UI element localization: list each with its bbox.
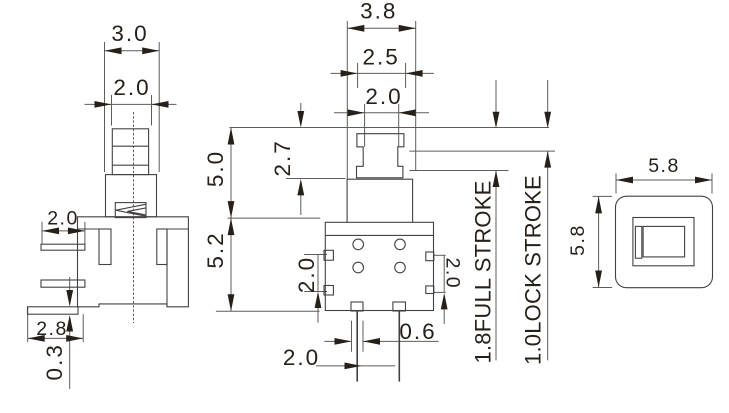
side dim left line bbox=[317, 255, 319, 292]
side dim left ext lower bbox=[304, 291, 327, 293]
dim 2.8 line bbox=[28, 337, 83, 339]
stroke dim lock tail top bbox=[547, 80, 549, 112]
dim 5.8 top arrow right bbox=[695, 177, 712, 184]
dim 0.3 line lower tail bbox=[69, 332, 71, 390]
shaft outline bbox=[112, 129, 148, 175]
svg-text:2.7: 2.7 bbox=[270, 139, 295, 176]
svg-text:5.8: 5.8 bbox=[567, 224, 589, 256]
body outline bbox=[78, 217, 189, 307]
side dim right ext lower bbox=[434, 291, 446, 293]
svg-text:0.6: 0.6 bbox=[399, 319, 436, 344]
svg-text:2.0: 2.0 bbox=[113, 75, 150, 100]
dim 3.8 ext right bbox=[415, 21, 417, 171]
spring box bbox=[115, 203, 146, 218]
side dim right ext upper bbox=[434, 254, 446, 256]
dim 2.0 line bbox=[85, 103, 177, 105]
dim 0.3 arrow up bbox=[66, 315, 73, 332]
dim 2.0 terminal line bbox=[42, 230, 85, 232]
dim 2.7 arrow up bbox=[297, 179, 304, 196]
dim 2.7 arrow down bbox=[297, 111, 304, 128]
full stroke line bbox=[409, 170, 508, 172]
dim 2.0 tick right bbox=[398, 104, 400, 147]
dim 2.5 line bbox=[331, 72, 434, 74]
terminal upper bbox=[41, 244, 85, 250]
bottom tab left bbox=[351, 302, 363, 311]
housing block bbox=[347, 179, 413, 222]
dim 5.8 top ext right bbox=[711, 174, 713, 194]
dim 0.3 arrow down bbox=[66, 290, 73, 307]
dim 3.0 extension line right bbox=[158, 42, 160, 172]
dim 0.6 tick right bbox=[362, 321, 364, 352]
ext line 5.2 bottom bbox=[216, 310, 320, 312]
lead left bbox=[356, 311, 358, 382]
svg-text:1.8FULL STROKE: 1.8FULL STROKE bbox=[471, 181, 496, 364]
dim 2.8 arrow right bbox=[66, 335, 83, 342]
base bar bbox=[28, 307, 79, 314]
svg-text:0.3: 0.3 bbox=[42, 343, 67, 380]
dim 3.0 arrow left bbox=[105, 47, 122, 54]
body right slot bbox=[157, 229, 167, 265]
dim 5.0 arrow up bbox=[228, 128, 235, 145]
top view mid rect bbox=[633, 218, 694, 266]
dim 5.8 left arrow up bbox=[595, 196, 602, 213]
dim 5.2 arrow up bbox=[228, 218, 235, 235]
dim 2.0 terminal arrow right bbox=[68, 228, 85, 235]
ext line 5.0/5.2 shared bbox=[228, 217, 321, 219]
side dim right tail bbox=[443, 309, 445, 324]
dim 2.0 terminal ext right bbox=[84, 222, 86, 244]
dim 2.0 terminal ext left bbox=[41, 222, 43, 244]
svg-text:2.0: 2.0 bbox=[294, 256, 319, 293]
centerline bbox=[133, 112, 135, 323]
svg-text:5.8: 5.8 bbox=[648, 155, 680, 177]
dim 2.7 line bbox=[300, 103, 302, 112]
shaft line 2 bbox=[112, 164, 148, 166]
dim 3.8 ext left bbox=[346, 21, 348, 180]
svg-text:2.5: 2.5 bbox=[363, 45, 400, 70]
svg-text:5.2: 5.2 bbox=[203, 231, 228, 268]
dim 2.7 ext line bbox=[286, 178, 345, 180]
dim 2.8 arrow left bbox=[28, 335, 45, 342]
svg-text:2.0: 2.0 bbox=[283, 345, 320, 370]
svg-text:2.0: 2.0 bbox=[47, 208, 79, 230]
stroke dim full tail bottom bbox=[495, 171, 497, 361]
svg-text:5.0: 5.0 bbox=[203, 150, 228, 187]
dim 2.7 lower tail bbox=[300, 195, 302, 215]
side dim left ext upper bbox=[304, 254, 327, 256]
dim 5.0 arrow down bbox=[228, 201, 235, 218]
stroke full arrow up bbox=[493, 171, 500, 188]
dim 5.2 line bbox=[230, 218, 232, 311]
svg-text:2.0: 2.0 bbox=[365, 84, 402, 109]
rivet circle top-left bbox=[353, 239, 364, 250]
side dim right line bbox=[443, 255, 445, 292]
step box bbox=[106, 175, 157, 217]
side tab upper-left bbox=[324, 250, 333, 260]
side tab lower-right bbox=[426, 286, 434, 294]
dim 2.0 tick right bbox=[151, 95, 153, 126]
stroke dim full tail top bbox=[495, 80, 497, 112]
dim 5.0 line bbox=[230, 128, 232, 219]
dim 2.0 line bbox=[334, 112, 429, 114]
dim 5.8 top ext left bbox=[615, 174, 617, 194]
dim 0.6 line left tail bbox=[324, 340, 351, 342]
dim 0.6 arrow left bbox=[335, 338, 352, 345]
dim 2.0 leads line bbox=[316, 365, 395, 367]
side dim right arrow up bbox=[441, 293, 448, 310]
dim 3.0 arrow right bbox=[142, 47, 159, 54]
side dim left arrow up bbox=[315, 292, 322, 309]
dim 2.8 ext left bbox=[27, 307, 29, 342]
dim 2.0 arrow left bbox=[95, 101, 112, 108]
body left slot bbox=[99, 229, 111, 265]
dim 3.8 arrow right bbox=[399, 25, 416, 32]
dim 3.8 line bbox=[347, 27, 415, 29]
side tab lower-left bbox=[324, 286, 333, 296]
body ledge line left bbox=[78, 228, 112, 230]
svg-text:3.0: 3.0 bbox=[111, 21, 148, 46]
svg-text:3.8: 3.8 bbox=[360, 0, 397, 24]
terminal lower bbox=[41, 280, 85, 287]
rivet circle bottom-left bbox=[353, 262, 364, 273]
dim 2.0 leads arrow bbox=[345, 363, 362, 370]
stroke dim lock tail bottom bbox=[547, 151, 549, 360]
spring zigzag bbox=[116, 204, 146, 216]
dim 5.2 arrow down bbox=[228, 294, 235, 311]
dim 3.0 extension line left bbox=[104, 42, 106, 172]
dim 2.0 arrow right bbox=[399, 109, 416, 116]
svg-text:1.0LOCK STROKE: 1.0LOCK STROKE bbox=[521, 175, 546, 365]
side tab upper-right bbox=[426, 252, 434, 261]
stroke lock arrow up bbox=[544, 151, 551, 168]
dim 0.6 arrow right bbox=[363, 338, 380, 345]
dim 2.5 tick left bbox=[357, 63, 359, 88]
svg-text:2.8: 2.8 bbox=[36, 318, 68, 340]
dim 3.8 arrow left bbox=[347, 25, 364, 32]
dim 2.0 arrow right bbox=[152, 101, 169, 108]
dim 5.8 left arrow down bbox=[595, 271, 602, 288]
body right inner wall bbox=[166, 229, 168, 307]
dim 2.5 arrow left bbox=[341, 70, 358, 77]
dim 2.5 arrow right bbox=[406, 70, 423, 77]
top view inner rect bbox=[643, 226, 685, 257]
dim 5.8 left ext top bbox=[593, 195, 612, 197]
dim 0.3 line upper tail bbox=[69, 277, 71, 291]
rivet circle bottom-right bbox=[395, 262, 406, 273]
button outline bbox=[357, 134, 404, 178]
svg-text:2.0: 2.0 bbox=[442, 257, 464, 289]
body ledge line right bbox=[157, 228, 189, 230]
top view outer square bbox=[616, 196, 713, 288]
dim 0.6 line right tail bbox=[363, 340, 439, 342]
body cover line bbox=[325, 234, 433, 236]
stroke full arrow down bbox=[493, 112, 500, 129]
stroke lock arrow down bbox=[544, 112, 551, 129]
dim 2.0 arrow left bbox=[348, 109, 365, 116]
dim 5.8 left line bbox=[598, 196, 600, 287]
body outline bbox=[325, 222, 433, 310]
dim 0.6 tick left bbox=[351, 321, 353, 352]
dim 5.8 top arrow left bbox=[616, 177, 633, 184]
dim 2.0 terminal arrow left bbox=[42, 228, 59, 235]
lead right bbox=[398, 311, 400, 382]
dim 5.8 top line bbox=[616, 179, 712, 181]
side dim left tail bbox=[317, 308, 319, 323]
free position line bbox=[230, 127, 550, 129]
dim 2.5 tick right bbox=[405, 63, 407, 88]
dim 2.8 ext right bbox=[82, 314, 84, 342]
lock stroke line bbox=[409, 150, 555, 152]
rivet circle top-right bbox=[395, 239, 406, 250]
bottom tab right bbox=[393, 302, 406, 311]
dim 5.8 left ext bottom bbox=[593, 287, 612, 289]
top view left bar bbox=[635, 226, 641, 258]
shaft line 1 bbox=[112, 145, 148, 147]
dim 3.0 line bbox=[105, 50, 160, 52]
dim 2.0 tick left bbox=[364, 104, 366, 147]
dim 2.0 tick left bbox=[111, 95, 113, 126]
